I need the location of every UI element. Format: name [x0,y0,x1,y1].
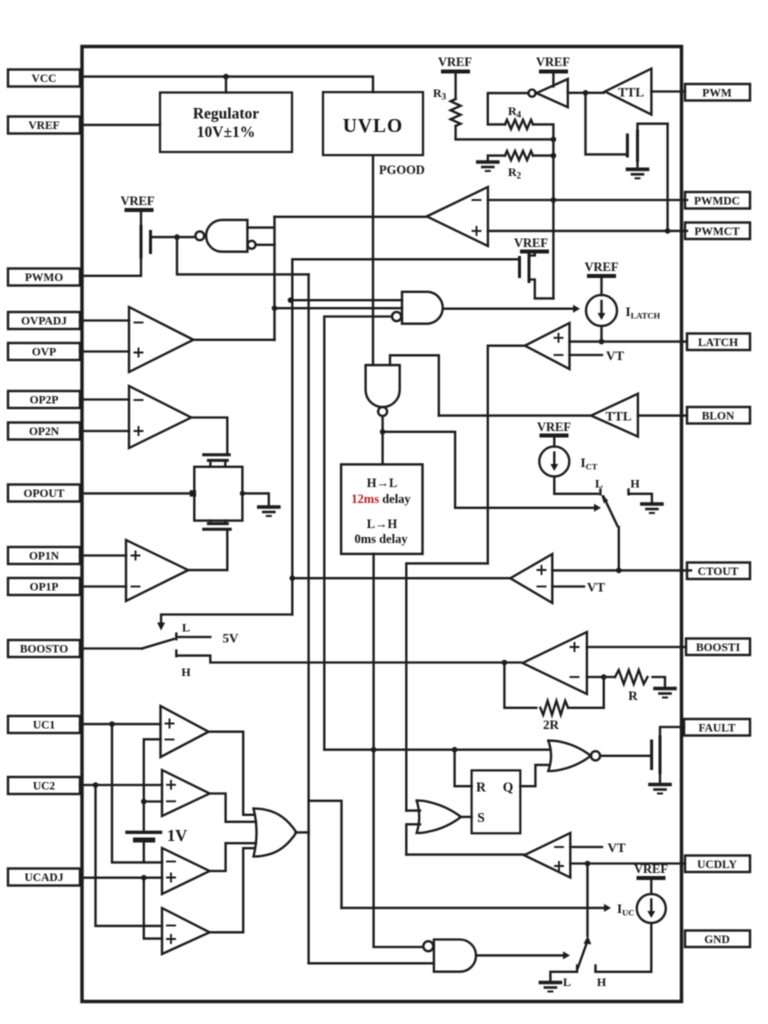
node Q2 gate junction [174,234,180,240]
svg-text:VREF: VREF [514,236,548,250]
wire comp2 inverting stub [144,800,162,802]
wire CT rail to BOOSTO throw arrow [161,615,292,624]
current source ILATCH [586,295,617,326]
gate NAND-UVLO (down pointing) [366,365,400,407]
wire UCDLY pin line [570,862,685,864]
supply VREF over ILATCH [584,260,618,295]
pin OP1P [8,578,80,595]
wire 2R to BOOSTI output node [504,663,536,708]
svg-text:L: L [563,975,571,989]
wire OVP comparator output up to NAND rail [192,339,275,341]
wire pass gate to ground [242,493,268,505]
svg-text:PGOOD: PGOOD [379,163,425,177]
comparator UC4 [162,908,210,954]
wire LATCH pin line [570,340,688,342]
svg-text:FAULT: FAULT [698,723,735,735]
svg-text:H: H [597,975,607,989]
svg-text:12ms delay: 12ms delay [351,492,411,506]
wire VT stub (LATCH) [570,354,603,356]
wire VREF pin to regulator [80,124,160,126]
switch UCDLY vertical from node [586,864,588,937]
wire VCC rail [80,77,373,93]
node delay rail crossing [371,747,377,753]
wire NAND-UVLO output to delay block [381,416,383,464]
wire delay output down [374,554,423,947]
wire UCADJ pin line [80,877,162,879]
svg-text:LATCH: LATCH [698,337,738,349]
pin UCDLY [685,856,750,873]
resistor R (BOOSTI) [615,670,648,684]
node RS reset branch [452,747,458,753]
svg-text:R: R [476,780,486,795]
supply VREF over ICT [537,420,571,447]
node UC1 branch [109,721,115,727]
svg-text:OVPADJ: OVPADJ [21,316,67,328]
svg-text:UC2: UC2 [33,781,56,793]
svg-text:2R: 2R [543,717,560,732]
pin BOOSTO [8,640,80,657]
node delay/CT-switch branch [380,429,386,435]
svg-text:VREF: VREF [120,194,154,208]
ground at CT H contact [642,504,662,513]
svg-text:VCC: VCC [32,73,57,85]
resistor 2R [540,701,568,715]
block RS flip-flop [472,770,521,833]
wire OVP pin to comparator [80,350,129,352]
switch UCDLY L contact [550,966,577,982]
wire TTL output to PWM pin [651,90,685,92]
pin UC1 [8,716,80,733]
svg-text:OP2P: OP2P [30,395,59,407]
current source IUC [637,894,666,923]
svg-text:PWMCT: PWMCT [694,226,740,238]
transistor Q4 (FAULT NMOS) [652,727,684,783]
wire UC2 pin line [80,784,162,786]
wire UC2 output staircase [208,794,256,822]
svg-text:VREF: VREF [438,55,472,69]
switch BOOSTO L contact and 5V stub [176,634,210,640]
svg-text:ICT: ICT [581,455,598,472]
node OPOUT junction [190,490,196,496]
comparator UC2 [162,770,210,816]
wire feedback node down to 2R [568,677,604,708]
node battery rail/comp2 [141,799,147,805]
wire CT switch to CTOUT line [618,527,620,570]
svg-text:VT: VT [608,840,626,855]
wire gate-node down to CT buffer rail [177,237,309,274]
wire branch to CT switch arrow [383,432,594,508]
wire NAND3 top input [291,299,403,301]
transistor Q1 (NMOS near PWM) [627,124,667,168]
pin VCC [8,70,80,87]
node BOOSTI output/H wire [502,660,508,666]
svg-text:PWMDC: PWMDC [694,196,740,208]
wire battery rail to comp1 inverting [144,739,161,831]
wire UC4 output staircase [208,848,255,932]
gate NAND (bottom) [434,940,476,972]
wire OP2N pin [80,430,129,432]
gate NOR (FAULT) [548,741,591,771]
svg-text:OP1N: OP1N [29,551,60,563]
svg-text:VT: VT [606,348,624,363]
node TTL/inverter/gate [583,90,589,96]
wire inverter output to R4 [488,93,529,124]
wire R to ground [653,677,666,687]
svg-text:VREF: VREF [584,260,618,274]
wire ICT to switch L contact [554,477,598,494]
pin BOOSTI [686,639,750,656]
svg-text:UCADJ: UCADJ [25,872,64,884]
svg-text:VREF: VREF [537,420,571,434]
svg-text:S: S [477,810,485,825]
node CTOUT/CT-rail [290,575,296,581]
svg-text:UCDLY: UCDLY [697,859,738,871]
svg-text:VREF: VREF [536,55,570,69]
svg-text:5V: 5V [223,631,240,646]
svg-text:GND: GND [704,934,730,946]
supply VREF over IUC [634,862,668,894]
wire NAND3 output to ILATCH [444,308,573,310]
node VCC-regulator junction [223,74,229,80]
node OVP-rail/NAND3 [272,305,278,311]
node UCDLY/switch [585,861,591,867]
wire UC1 output staircase [208,732,255,815]
supply VREF over PWMO PMOS [120,194,154,227]
switch BOOSTO arm [142,639,174,649]
wire CT buffer rail to PWMCT pull-up gate [292,259,519,614]
svg-text:TTL: TTL [618,85,644,100]
wire UC fault line to IUC arrow [342,907,605,909]
wire OVPADJ pin to comparator [80,319,129,321]
svg-text:0ms delay: 0ms delay [354,532,408,546]
wire R2 ground stub [488,156,505,161]
net CT-select rail to NOR [324,749,548,751]
pin UC2 [8,777,80,794]
wire CTOUT output to CT buffer rail [292,577,509,579]
arrow into ILATCH [573,305,580,313]
svg-text:OVP: OVP [32,347,56,359]
wire OP1 output up to pass gate [187,529,228,570]
wire NAND3 middle input [275,307,403,309]
svg-text:R: R [628,688,638,703]
wire regulator supply stub [225,77,227,93]
comparator UCDLY [524,833,570,878]
node UC2 branch [93,782,99,788]
wire set OR output to S [460,816,472,818]
svg-text:UC1: UC1 [33,720,56,732]
wire Q1 drain to PWMCT net [666,124,668,231]
pin OVPADJ [8,312,80,329]
node UCADJ branch [141,875,147,881]
node R2/divider [551,153,557,159]
switch CT H contact [629,490,652,503]
pin PWMCT [685,223,750,240]
resistor R2 [505,151,533,160]
wire PWMDC input line [488,199,687,201]
svg-text:L→H: L→H [367,517,398,531]
net PGOOD vertical from UVLO [372,155,374,365]
wire NAND input 2 (bubble side) [248,241,256,249]
node Q1-drain/PWMCT [665,228,671,234]
buffer TTL (BLON) [591,394,638,437]
delay block [341,464,422,554]
wire BOOSTI inverting input line [587,676,615,678]
wire OPOUT pin to pass gate [80,492,194,494]
node R3/R4 [551,137,557,143]
comparator CTOUT [510,554,552,603]
svg-text:VREF: VREF [634,862,668,876]
wire OP2P pin [80,398,129,400]
wire LATCH out elbow to S-OR rail [406,563,488,810]
wire OP2 output to pass gate [190,418,228,454]
svg-text:L: L [182,621,190,635]
switch UCDLY H contact [594,966,596,972]
pin LATCH [687,334,750,351]
wire PWMCT input line [488,230,687,232]
node ILATCH/LATCH [599,339,605,345]
wire BLON input elbow to NAND-UVLO [390,355,439,415]
switch CT L contact [599,490,601,495]
battery 1V [127,832,161,862]
arrow into IUC switch [604,904,611,912]
svg-text:H: H [630,477,640,491]
wire gate drive down [586,93,626,155]
wire OP1N pin [80,554,126,556]
wire UC1 pin line [80,723,161,725]
switch CT arm [604,497,618,527]
svg-text:Regulator: Regulator [193,106,259,123]
node CT-rail/NAND3 [288,297,294,303]
svg-text:TTL: TTL [605,409,631,424]
pin OP2P [8,391,80,408]
switch UCDLY arm [578,942,588,969]
wire UC1 rail to comp3 [112,724,162,862]
wire R4 to divider node [533,124,553,298]
regulator block [160,93,292,153]
comparator UC1 [161,706,209,757]
svg-text:L: L [595,477,603,491]
wire UC OR output [296,801,342,908]
svg-text:1V: 1V [167,826,187,845]
net main rail A [307,274,309,963]
pin GND [685,931,750,948]
comparator UC3 [162,848,210,894]
svg-text:PWMO: PWMO [25,272,63,284]
comparator OP1 [126,540,188,601]
svg-text:ILATCH: ILATCH [626,304,661,321]
node divider/PWMDC [551,197,557,203]
pin PWMO [8,269,80,286]
inverter U-top (left pointing with bubble) [537,79,568,107]
wire ILATCH to LATCH line [600,326,602,342]
svg-text:VREF: VREF [28,120,59,132]
wire bottom NAND output arrow [477,954,563,956]
ground at R [655,689,675,698]
svg-text:R3: R3 [433,86,447,102]
pin UCADJ [8,869,80,886]
svg-text:10V±1%: 10V±1% [197,124,255,141]
wire OP1P pin [80,585,126,587]
pin OP1N [8,547,80,564]
wire BOOSTI pin to comparator [587,646,686,648]
pin BLON [687,407,750,424]
resistor R4 [505,120,533,129]
gate NAND3 (latch drive) [402,292,443,324]
pin PWM [685,84,750,101]
wire Q2 gate [151,236,196,238]
wire BLON pin to TTL [638,414,687,416]
pin FAULT [684,719,750,736]
wire IUC to H contact [596,923,652,972]
pass-gate body loop [194,467,242,521]
wire set OR inputs [406,811,420,855]
svg-text:VT: VT [587,580,605,595]
wire PWMDC comparator output [275,216,426,218]
wire bottom NAND lower input [309,962,434,964]
supply VREF over R3 [438,55,472,99]
wire VT stub (CTOUT) [552,585,584,587]
transistor Q3 (PMOS PWMCT pull-up) [520,252,554,299]
pin OP2N [8,423,80,440]
node CT switch/CTOUT [616,568,622,574]
wire UCADJ rail to comp4 [144,878,162,939]
wire R3 bottom to divider node [456,126,554,139]
supply VREF over PWMCT PMOS [514,236,548,255]
wire R2 to divider node [533,154,553,156]
svg-text:OPOUT: OPOUT [24,488,65,500]
wire reset branch to RS flip-flop [455,750,472,787]
supply VREF over inverter [536,55,570,87]
comparator OVP [129,307,193,372]
block UVLO [323,92,423,155]
arrow into CT switch [594,504,601,512]
comparator LATCH [525,323,570,369]
svg-text:PWM: PWM [702,88,732,100]
pin OPOUT [8,485,80,502]
wire UCDLY comparator output to set OR [406,853,523,855]
wire CTOUT pin line [552,569,691,571]
svg-text:Q: Q [503,780,514,795]
wire VT stub (UCDLY) [570,846,602,848]
wire NAND input 1 from PWMDC out [247,217,274,340]
pin VREF [8,117,80,134]
ground below R2 [478,162,498,171]
wire LATCH comparator output [488,346,524,564]
IC outer border [82,47,682,1002]
wire TTL apex to elbow [439,414,590,416]
wire NAND3 bubble input from CTOUT-switch net [324,317,392,750]
svg-text:R4: R4 [508,104,522,120]
wire UC3 output staircase [208,843,256,871]
comparator PWMDC/PWMCT [427,187,488,246]
svg-text:OP2N: OP2N [29,426,60,438]
svg-text:BLON: BLON [702,411,735,423]
ground at UCDLY L [540,983,560,992]
node BOOSTI feedback [601,674,607,680]
pass-gate upper FET [204,455,230,467]
gate OR (UC bank) [254,809,297,857]
switch BOOSTO H contact [176,651,521,663]
ground at pass gate [259,507,279,516]
svg-text:BOOSTI: BOOSTI [696,642,741,654]
wire UC2 rail to comp4 [96,785,163,926]
gate OR (set) [417,801,461,834]
svg-text:R2: R2 [508,165,522,181]
wire NOR output to FAULT FET gate [600,755,650,757]
svg-text:IUC: IUC [617,901,634,918]
svg-text:H: H [181,665,191,679]
resistor R3 [451,99,461,126]
pin CTOUT [687,563,750,580]
svg-text:H→L: H→L [367,476,398,490]
current source ICT [539,447,569,477]
pin OVP [8,343,80,360]
ground below Q1 [628,169,648,178]
buffer TTL (PWM) [605,69,651,115]
pin PWMDC [685,192,750,209]
gate NAND (PWMO drive, left-pointing) [206,220,247,252]
ground below Q4 [650,785,670,794]
svg-text:CTOUT: CTOUT [698,566,739,578]
svg-text:BOOSTO: BOOSTO [20,644,68,656]
wire NOR input 2 from Q [520,765,548,786]
comparator BOOSTI [523,632,587,694]
svg-text:OP1P: OP1P [30,582,59,594]
transistor Q2 (PMOS to PWMO pin) [80,227,151,276]
comparator OP2 [129,386,191,448]
wire TTL apex to inverter input [568,92,604,94]
svg-text:UVLO: UVLO [343,116,403,137]
pass-gate lower FET [204,521,231,530]
wire BOOSTO pin to switch [80,647,142,649]
node pass-gate right [240,491,245,496]
